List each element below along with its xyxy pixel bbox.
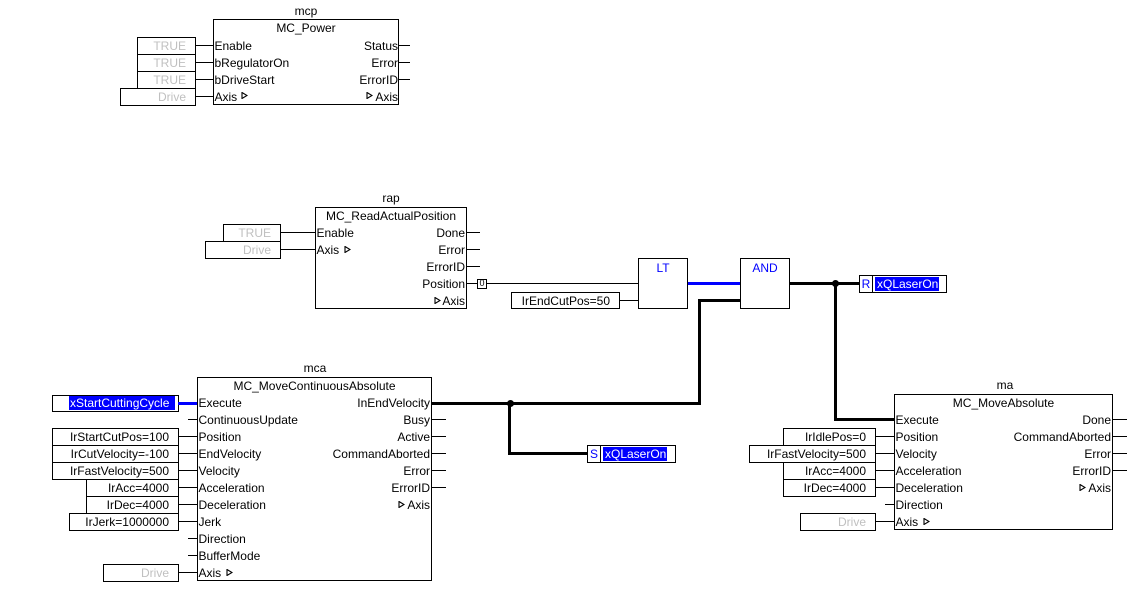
pin Jerk [199, 514, 222, 530]
in-out marker triangle mcp Axis output [366, 92, 373, 99]
operand box Drive ma [800, 513, 876, 531]
wire horizontal into ma Execute [834, 418, 894, 421]
stub CommandAborted ma [1113, 436, 1127, 437]
junction dot AND output [832, 280, 839, 287]
pin Busy mca [230, 412, 430, 428]
pin ErrorID ma [910, 463, 1111, 479]
stub Error mca [432, 470, 446, 471]
block rap MC_ReadActualPosition body [315, 207, 467, 309]
block mca title [197, 378, 432, 394]
in-out marker triangle mca Axis output [398, 501, 405, 508]
junction dot at branch to S [507, 400, 514, 407]
wire IrAcc to Acceleration ma [876, 470, 894, 471]
pin Deceleration ma [896, 480, 963, 496]
pin Axis in [215, 89, 238, 105]
stub Busy mca [432, 419, 446, 420]
pin bRegulatorOn [215, 55, 290, 71]
monitor value box 0 [477, 279, 487, 289]
in-out marker triangle mca Axis input [226, 569, 233, 576]
block ma label [985, 377, 1025, 393]
pin Direction mca [199, 531, 246, 547]
operand box TRUE 1 [137, 37, 196, 55]
pin ContinuousUpdate [199, 412, 298, 428]
wire xStartCuttingCycle to Execute (blue TRUE) [178, 402, 197, 405]
stub Status [399, 45, 410, 46]
operator block AND [740, 258, 790, 309]
pin Axis in mca [199, 565, 222, 581]
wire IrFastVelocity to Velocity mca [178, 470, 197, 471]
pin CommandAborted mca [230, 446, 430, 462]
pin ErrorID [250, 72, 398, 88]
pin Active mca [230, 429, 430, 445]
pin bDriveStart [215, 72, 275, 88]
selection highlight S operand [603, 447, 667, 461]
pin Axis out mca [230, 497, 430, 513]
operand box Drive mca [103, 564, 179, 582]
S letter [587, 446, 601, 462]
wire Position to LT input1 [487, 283, 638, 284]
stub CommandAborted mca [432, 453, 446, 454]
operand box IrAcc=4000 ma [783, 462, 876, 480]
pin Enable [215, 38, 252, 54]
operand box IrJerk=1000000 [69, 513, 179, 531]
pin Status [250, 38, 398, 54]
wire vertical down to ma Execute [834, 282, 837, 421]
R letter [859, 276, 873, 292]
LT title [638, 260, 688, 276]
pin BufferMode [199, 548, 261, 564]
pin ErrorID rap [317, 259, 465, 275]
pin Position mca [199, 429, 242, 445]
stub Direction ma [885, 504, 894, 505]
operand box TRUE 3 [137, 71, 196, 89]
wire IrDec to Deceleration mca [178, 504, 197, 505]
stub Error mcp [399, 62, 410, 63]
pin Axis out ma [910, 480, 1111, 496]
wire Position to monitor box [467, 283, 477, 284]
block mcp label [286, 3, 326, 19]
pin Execute ma [896, 412, 939, 428]
wire AND output horizontal [790, 282, 860, 285]
block ma title [894, 395, 1113, 411]
AND title [740, 260, 790, 276]
pin EndVelocity [199, 446, 262, 462]
wire IrStartCutPos to Position [178, 436, 197, 437]
block rap label [371, 190, 411, 206]
wire TRUE3 to bDriveStart [196, 79, 213, 80]
wire IrEndCutPos to LT input2 [620, 300, 638, 301]
pin Done rap [317, 225, 465, 241]
wire IrAcc to Acceleration mca [178, 487, 197, 488]
pin InEndVelocity [230, 395, 430, 411]
wire Drive to Axis mca [178, 572, 197, 573]
wire Drive to Axis ma [876, 521, 894, 522]
pin Execute mca [199, 395, 242, 411]
wire TRUE1 to Enable [196, 45, 213, 46]
operand edit box R xQLaserOn [872, 275, 947, 293]
block rap title [315, 208, 467, 224]
pin Deceleration mca [199, 497, 266, 513]
pin Error [250, 55, 398, 71]
block ma MC_MoveAbsolute body [894, 394, 1113, 530]
pin Error ma [910, 446, 1111, 462]
operand box IrFastVelocity=500 ma [749, 445, 876, 463]
stub BufferMode [188, 555, 197, 556]
wire IrFastVelocity to Velocity ma [876, 453, 894, 454]
operand box IrCutVelocity=-100 [52, 445, 179, 463]
pin Axis in ma [896, 514, 919, 530]
operand text xQLaserOn (S) [605, 446, 666, 462]
pin Enable rap [317, 225, 354, 241]
wire vertical up to AND input2 [698, 299, 701, 405]
wire horizontal into AND input2 [698, 299, 740, 302]
operand box IrFastVelocity=500 mca [52, 462, 179, 480]
pin Direction ma [896, 497, 943, 513]
wire Drive to Axis [196, 96, 213, 97]
operand box Drive mcp [120, 88, 196, 106]
block mca label [295, 360, 335, 376]
wire IrJerk to Jerk [178, 521, 197, 522]
block mcp MC_Power body [213, 19, 399, 105]
block mcp title [213, 20, 399, 36]
wire LT output to AND input1 (blue TRUE) [688, 282, 740, 285]
pin Position rap [317, 276, 465, 292]
wire branch horizontal to S box [508, 452, 588, 455]
wire TRUE2 to bRegulatorOn [196, 62, 213, 63]
pin Done ma [910, 412, 1111, 428]
stub ErrorID mcp [399, 79, 410, 80]
operand box IrDec=4000 mca [86, 496, 179, 514]
selection highlight R operand [875, 277, 939, 291]
operand box xStartCuttingCycle [52, 395, 179, 412]
stub ErrorID ma [1113, 470, 1127, 471]
stub ErrorID mca [432, 487, 446, 488]
pin CommandAborted ma [910, 429, 1111, 445]
operand box IrAcc=4000 mca [86, 479, 179, 497]
operator block LT [638, 258, 688, 309]
stub ErrorID rap [467, 266, 480, 267]
in-out marker triangle ma Axis input [923, 518, 930, 525]
stub ContinuousUpdate [188, 419, 197, 420]
pin Velocity mca [199, 463, 240, 479]
wire IrCutVelocity to EndVelocity [178, 453, 197, 454]
wire branch vertical down to S [508, 402, 511, 456]
pin Axis out [250, 89, 398, 105]
operand box IrEndCutPos=50 [511, 292, 620, 309]
stub Error ma [1113, 453, 1127, 454]
stub Error rap [467, 249, 480, 250]
operand box IrStartCutPos=100 [52, 428, 179, 446]
wire IrIdlePos to Position ma [876, 436, 894, 437]
in-out marker triangle rap Axis input [344, 246, 351, 253]
wire Drive to Axis rap [281, 249, 315, 250]
block mca MC_MoveContinuousAbsolute body [197, 377, 432, 581]
reset coil R box [859, 275, 873, 293]
pin Axis in rap [317, 242, 340, 258]
stub Direction mca [188, 538, 197, 539]
pin Velocity ma [896, 446, 937, 462]
pin ErrorID mca [230, 480, 430, 496]
pin Axis out rap [317, 293, 465, 309]
operand text xStartCuttingCycle [70, 395, 169, 411]
monitor value text 0 [477, 279, 487, 289]
operand box IrIdlePos=0 [783, 428, 876, 446]
wire IrDec to Deceleration ma [876, 487, 894, 488]
pin Error rap [317, 242, 465, 258]
wire TRUE to Enable rap [281, 232, 315, 233]
selection highlight xStartCuttingCycle [69, 396, 175, 410]
pin Acceleration mca [199, 480, 265, 496]
pin Error mca [230, 463, 430, 479]
in-out marker triangle ma Axis output [1079, 484, 1086, 491]
stub Done ma [1113, 419, 1127, 420]
pin Position ma [896, 429, 939, 445]
operand edit box S xQLaserOn [600, 445, 676, 463]
operand box TRUE 2 [137, 54, 196, 72]
stub Done rap [467, 232, 480, 233]
pin Acceleration ma [896, 463, 962, 479]
operand text xQLaserOn (R) [877, 276, 938, 292]
operand box IrDec=4000 ma [783, 479, 876, 497]
stub Active mca [432, 436, 446, 437]
in-out marker triangle mcp Axis input [241, 92, 248, 99]
operand box TRUE rap [223, 224, 281, 242]
wire mca InEndVelocity horizontal (bool TRUE thick) [432, 402, 701, 405]
set coil S box [587, 445, 601, 463]
operand box Drive rap [205, 241, 281, 259]
in-out marker triangle rap Axis output [434, 297, 441, 304]
